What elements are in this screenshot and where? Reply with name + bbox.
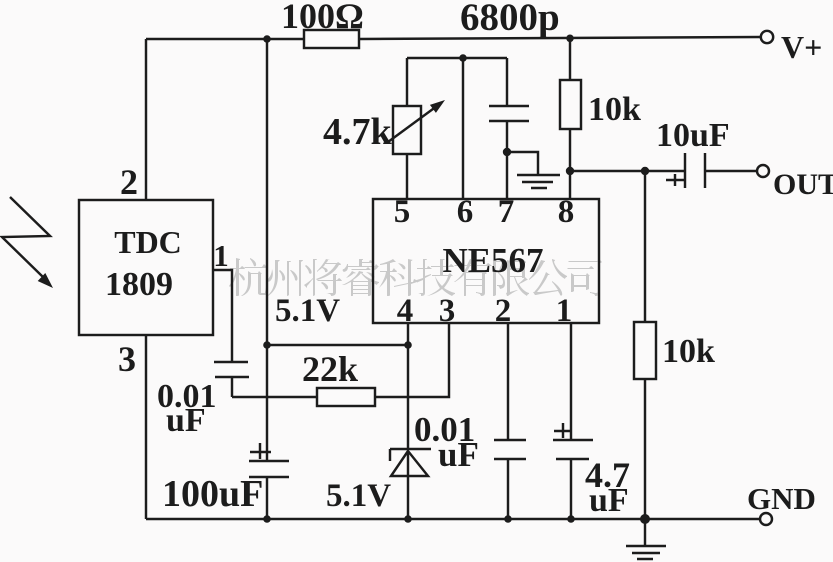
zener diode D1 5.1V — [390, 449, 431, 476]
ground symbol near pin 7 — [517, 175, 560, 188]
capacitor C1 6800p plates — [489, 106, 529, 121]
node junction pin8/out link — [566, 167, 574, 175]
watermark company name — [229, 258, 602, 296]
capacitor C2 0.01uF plates — [214, 362, 249, 377]
svg-text:3: 3 — [439, 293, 456, 329]
wire 5.1V rail — [266, 39, 268, 461]
node junction top-rail/R2 — [566, 35, 574, 43]
wire — [506, 58, 508, 105]
svg-text:6: 6 — [457, 194, 474, 230]
photo IC U1 TDC1809 box — [79, 200, 213, 335]
svg-text:4: 4 — [397, 293, 414, 329]
wire — [705, 170, 757, 172]
node junction top-rail/5.1V rail — [263, 35, 271, 43]
svg-text:TDC: TDC — [114, 224, 182, 260]
svg-text:100Ω: 100Ω — [281, 0, 364, 36]
capacitor C3 100uF plates — [249, 461, 289, 477]
svg-text:1809: 1809 — [105, 266, 173, 303]
node junction 5.1V/pin4 link — [263, 341, 271, 349]
wire — [570, 170, 684, 172]
wire — [507, 459, 509, 519]
node junction pin4 link — [404, 341, 412, 349]
svg-text:6800p: 6800p — [460, 0, 560, 39]
node junction pin7/ground branch — [503, 148, 511, 156]
svg-text:3: 3 — [118, 339, 136, 379]
wire — [375, 323, 449, 397]
node junction bottom rail/C3 — [263, 515, 271, 523]
wire — [146, 38, 305, 40]
svg-text:10k: 10k — [588, 91, 641, 128]
ground symbol bottom — [626, 546, 666, 559]
resistor R4 10k body — [634, 322, 656, 379]
resistor R2 10k body — [560, 80, 581, 129]
resistor R1 100Ω body — [304, 30, 359, 48]
svg-text:5.1V: 5.1V — [326, 478, 391, 514]
svg-text:V+: V+ — [781, 29, 822, 65]
svg-text:1: 1 — [213, 238, 229, 273]
wire — [406, 58, 408, 106]
svg-text:8: 8 — [558, 194, 575, 230]
node junction pin6/top link — [459, 54, 467, 62]
svg-text:10k: 10k — [662, 333, 715, 370]
wire — [569, 38, 571, 80]
wire pin 4 — [407, 323, 409, 449]
wire — [145, 39, 147, 200]
wire — [506, 121, 508, 152]
resistor R3 22k body — [317, 388, 375, 406]
node junction out/R4 — [641, 167, 649, 175]
wire — [145, 335, 147, 519]
wire — [507, 152, 538, 174]
wire — [232, 396, 317, 398]
svg-text:5: 5 — [394, 194, 411, 230]
potentiometer RP1 4.7k body — [393, 106, 421, 154]
svg-text:7: 7 — [498, 194, 515, 230]
capacitor C6 4.7uF plus sign — [554, 423, 572, 438]
wire pin 6 — [462, 58, 464, 199]
svg-text:22k: 22k — [302, 349, 358, 389]
wire — [407, 57, 507, 59]
capacitor C4 10uF plus sign — [666, 174, 685, 186]
terminal OUT — [757, 165, 769, 177]
capacitor C3 100uF plus sign — [250, 443, 271, 459]
IC U2 NE567 box — [373, 199, 599, 323]
light input arrow — [2, 197, 50, 278]
capacitor C6 4.7uF plates — [553, 440, 593, 459]
wire pin 8 — [569, 171, 571, 199]
node junction bottom rail/ground — [640, 514, 650, 524]
wire — [570, 459, 572, 519]
svg-text:uF: uF — [166, 402, 206, 439]
svg-text:uF: uF — [438, 435, 479, 474]
wire pin 1 — [570, 323, 572, 440]
svg-text:5.1V: 5.1V — [275, 293, 340, 329]
svg-text:2: 2 — [120, 162, 138, 202]
wire — [407, 476, 409, 519]
wire — [231, 377, 233, 397]
wire — [644, 379, 646, 519]
node junction bottom rail/C6 — [567, 515, 575, 523]
wire — [213, 270, 232, 361]
svg-text:uF: uF — [589, 482, 629, 519]
wire — [266, 477, 268, 519]
wire — [569, 129, 571, 171]
wire — [644, 171, 646, 322]
svg-text:OUT: OUT — [773, 168, 833, 201]
svg-text:4.7k: 4.7k — [323, 111, 393, 153]
wire pin 7 — [506, 152, 508, 199]
svg-text:GND: GND — [747, 481, 816, 516]
wire bottom rail — [146, 518, 760, 520]
wire pin 2 — [507, 323, 509, 440]
wire — [406, 154, 408, 199]
node junction bottom rail/D1 — [404, 515, 412, 523]
terminal V+ — [761, 31, 773, 43]
capacitor C4 10uF plates — [685, 153, 705, 188]
capacitor C5 0.01uF plates — [494, 440, 526, 459]
wire — [267, 344, 408, 346]
svg-text:10uF: 10uF — [656, 117, 730, 154]
svg-text:100uF: 100uF — [162, 473, 263, 515]
potentiometer RP1 arrow — [388, 106, 437, 142]
wire — [644, 519, 646, 545]
terminal GND — [760, 513, 772, 525]
wire — [359, 37, 761, 39]
node junction bottom rail/C5 — [504, 515, 512, 523]
